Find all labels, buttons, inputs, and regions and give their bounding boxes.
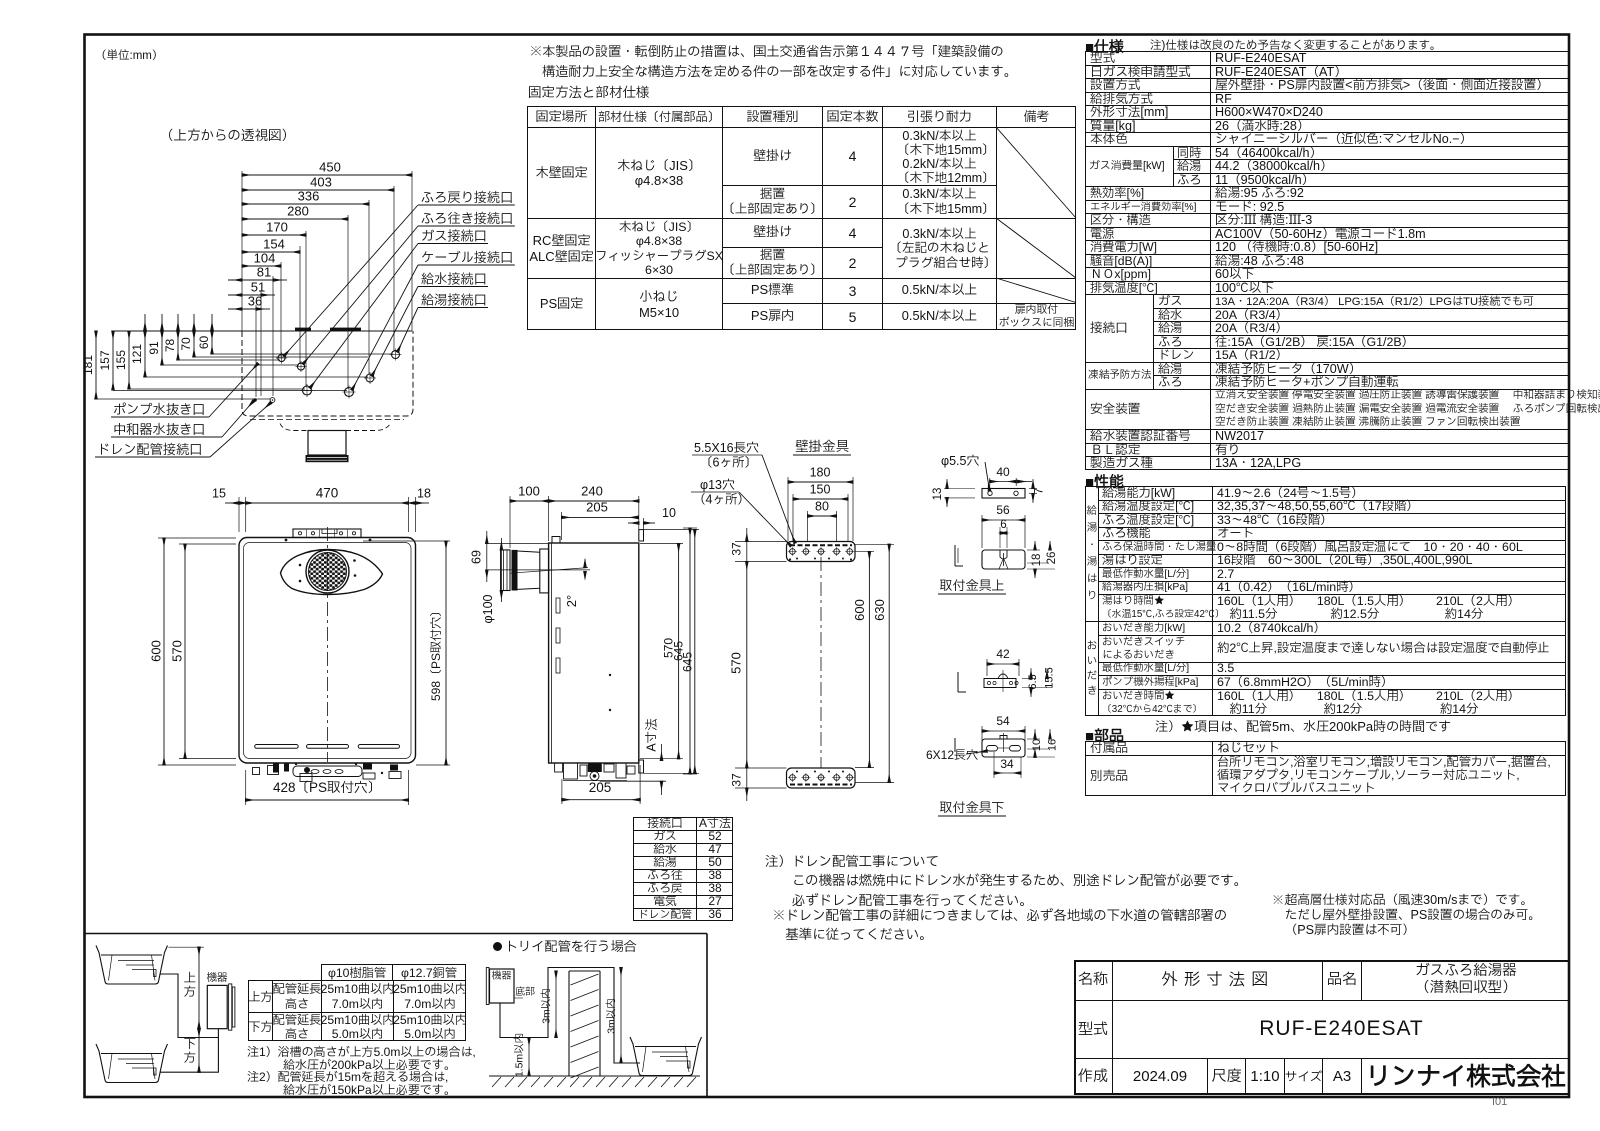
machine box xyxy=(207,985,227,1028)
side dims xyxy=(509,496,511,548)
bracket4 (取付金具下) xyxy=(981,726,983,746)
front fan grille xyxy=(281,550,383,595)
plan ports xyxy=(278,354,285,361)
plan left dim stack xyxy=(95,331,97,399)
side bottom pipes xyxy=(555,763,563,772)
plan exhaust duct xyxy=(308,431,346,456)
torii dims xyxy=(555,971,557,1038)
plan port lines xyxy=(212,353,393,355)
fixing table xyxy=(527,106,1076,330)
front slots xyxy=(255,745,299,749)
torii ground xyxy=(489,1075,700,1077)
front center line xyxy=(327,527,329,762)
top note xyxy=(529,42,1017,81)
bracket3 (42) xyxy=(986,659,988,676)
plan top line xyxy=(112,330,412,332)
ps vertical dims xyxy=(735,541,787,543)
torii wall xyxy=(569,971,600,1076)
front dims xyxy=(238,497,240,532)
unit note xyxy=(95,48,163,65)
A dims table xyxy=(633,817,733,921)
spec table xyxy=(1085,36,1124,59)
ps bottom bracket xyxy=(787,768,856,788)
perf table xyxy=(1085,471,1124,494)
plan extension lines xyxy=(411,171,413,331)
front bottom connectors xyxy=(253,768,260,775)
plan unit dashed outline xyxy=(242,331,413,416)
title block xyxy=(1074,960,1570,1095)
front top bracket xyxy=(293,529,361,538)
front view body xyxy=(239,538,416,764)
side exhaust pipe xyxy=(501,550,510,591)
torii machine xyxy=(490,969,515,1003)
side centerline + 2deg xyxy=(487,569,590,571)
piping section box xyxy=(84,933,707,935)
ps top bracket xyxy=(787,542,856,562)
torii piping diagram xyxy=(493,942,502,951)
side view body xyxy=(549,543,639,763)
parts table xyxy=(1085,725,1124,748)
bracket2 (取付金具上) xyxy=(982,550,1025,569)
left diagram pipes xyxy=(160,974,218,1038)
plan view top dim fan xyxy=(242,174,412,176)
left diagram upper tub xyxy=(96,946,168,985)
bracket detail: 56 wide xyxy=(981,515,983,548)
side small details xyxy=(556,598,560,613)
torii pipes xyxy=(500,968,640,1064)
updown dims xyxy=(198,947,200,1028)
ps template dims top xyxy=(787,477,789,541)
notes bottom xyxy=(765,852,1247,910)
piping table xyxy=(321,964,393,980)
